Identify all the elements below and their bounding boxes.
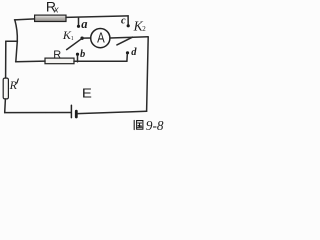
svg-text:9-8: 9-8	[146, 118, 164, 133]
resistor R box	[45, 58, 74, 64]
node a tick wire	[78, 18, 80, 25]
node d contact dot	[126, 51, 129, 54]
node c drop wire	[127, 16, 129, 24]
node d tick wire	[126, 54, 128, 61]
wire: R' to bottom-left corner	[4, 99, 7, 113]
node a contact dot	[77, 25, 80, 28]
wire: outer-left vertical down to R'	[5, 41, 7, 78]
switch K1 pivot dot	[80, 37, 83, 40]
node c contact dot	[127, 24, 130, 27]
node b tick wire	[77, 56, 79, 62]
wire: inner-left vertical to Rx branch	[15, 20, 18, 62]
svg-text:1: 1	[71, 36, 74, 42]
switch K2 arm	[117, 37, 133, 45]
svg-text:c: c	[121, 15, 126, 26]
svg-text:E: E	[82, 86, 92, 101]
wire: connector inner-left to outer-left	[6, 40, 18, 42]
wire: battery to bottom-right corner	[78, 111, 147, 113]
wire: ammeter right to right vertical	[110, 37, 148, 38]
battery short plate	[75, 111, 78, 117]
wire: right vertical up to K2 node	[147, 37, 149, 111]
switch K1 arm	[67, 39, 82, 50]
svg-text:x: x	[53, 5, 59, 15]
svg-text:A: A	[97, 30, 105, 46]
svg-text:2: 2	[142, 25, 146, 33]
rheostat R' box	[3, 78, 8, 99]
battery long plate	[70, 105, 72, 117]
wire: K1 pivot to ammeter	[83, 37, 91, 39]
wire: R box to node d	[74, 60, 127, 62]
wire: inner-left to R box	[16, 60, 45, 63]
svg-text:b: b	[80, 49, 85, 60]
op ammeter A circle	[91, 28, 110, 47]
caption figure 9-8 glyph box	[134, 120, 143, 129]
wire: top-left horizontal into Rx	[15, 19, 35, 20]
resistor Rx box	[35, 15, 66, 21]
svg-text:R: R	[9, 78, 18, 92]
svg-text:a: a	[81, 17, 87, 31]
wire: Rx box to top-right corner	[66, 16, 128, 18]
svg-text:d: d	[131, 47, 137, 58]
node b contact dot	[76, 53, 79, 56]
wire: bottom-left horizontal to battery	[5, 112, 71, 114]
